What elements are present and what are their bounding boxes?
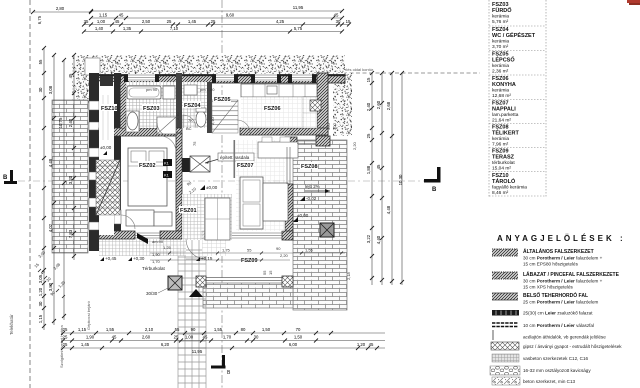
kitchen sink bbox=[267, 86, 277, 94]
svg-text:5,75: 5,75 bbox=[294, 26, 303, 31]
svg-text:kerámia: kerámia bbox=[492, 136, 509, 142]
tick marks top bbox=[31, 9, 351, 34]
wc bowl FSZ04 bbox=[196, 111, 206, 127]
svg-text:beton szerkezet, min C13: beton szerkezet, min C13 bbox=[523, 379, 576, 384]
svg-text:55: 55 bbox=[247, 248, 252, 253]
svg-text:kerámia: kerámia bbox=[492, 63, 509, 69]
swatch 1 general wall bbox=[492, 248, 603, 267]
svg-text:NAPPALI: NAPPALI bbox=[492, 107, 516, 113]
svg-text:15: 15 bbox=[346, 19, 351, 24]
right insulation speckle band bbox=[333, 73, 352, 136]
svg-text:vasbeton szerkezetek C12, C16: vasbeton szerkezetek C12, C16 bbox=[523, 356, 589, 361]
svg-text:3,08: 3,08 bbox=[48, 85, 53, 94]
svg-text:360: 360 bbox=[326, 123, 331, 130]
south wall hall segment bbox=[202, 231, 226, 239]
svg-text:11,95: 11,95 bbox=[293, 5, 304, 10]
svg-text:25: 25 bbox=[63, 335, 68, 340]
section marker B right bbox=[424, 167, 441, 193]
swatch 3 internal load bearing bbox=[492, 291, 599, 305]
window opening in top wall (stairs) bbox=[216, 74, 234, 81]
svg-text:45: 45 bbox=[376, 164, 381, 169]
kitchen floor tiles bbox=[241, 97, 317, 128]
bedroom right wall bbox=[176, 133, 182, 231]
svg-text:7,10: 7,10 bbox=[170, 26, 179, 31]
svg-text:FSZ02: FSZ02 bbox=[139, 163, 156, 169]
section line B-B horizontal dashed bbox=[18, 180, 425, 182]
south glazing lines bbox=[135, 233, 285, 238]
legend row FSZ04 bbox=[492, 27, 536, 50]
svg-text:25(30) cm Leier zsaluzókő fala: 25(30) cm Leier zsaluzókő falazat bbox=[523, 311, 593, 316]
FSZ05 stair treads bbox=[212, 100, 238, 133]
terrace edge double line bbox=[206, 278, 282, 281]
svg-text:1,50: 1,50 bbox=[262, 327, 271, 332]
shaft box with X bbox=[190, 156, 210, 172]
svg-text:4,25: 4,25 bbox=[276, 19, 285, 24]
svg-text:LÁBAZAT / PINCEFAL FALSZERKEZE: LÁBAZAT / PINCEFAL FALSZERKEZETE bbox=[523, 271, 620, 278]
svg-text:1,40: 1,40 bbox=[95, 26, 104, 31]
svg-text:Térburkolat: Térburkolat bbox=[142, 266, 166, 271]
svg-text:FSZ07: FSZ07 bbox=[237, 163, 254, 169]
telikert glazing bbox=[287, 147, 290, 184]
bottom-left dims cluster bbox=[33, 249, 67, 297]
bathroom left wall hatch strip bbox=[121, 82, 127, 128]
svg-text:B: B bbox=[432, 187, 437, 193]
kitchen flue hatched square bbox=[310, 100, 321, 111]
insulation contour dashed line top right bbox=[330, 72, 480, 74]
hall cabinet bbox=[205, 198, 230, 240]
terrace brick column FSZ09 bbox=[293, 140, 347, 310]
FSZ10 floor white with shelf lines bbox=[99, 82, 114, 235]
svg-text:15: 15 bbox=[366, 77, 371, 82]
row 6 lintels bbox=[493, 330, 606, 340]
wall FSZ04|FSZ05 bbox=[207, 82, 212, 133]
svg-text:15 cm EPS80 hőszigetelés: 15 cm EPS80 hőszigetelés bbox=[523, 262, 579, 267]
telikert top wall piece right bbox=[316, 136, 330, 146]
swatch 9 gravel bbox=[490, 366, 591, 375]
svg-text:1,75: 1,75 bbox=[222, 248, 231, 253]
svg-text:2,10: 2,10 bbox=[210, 116, 215, 125]
svg-text:25: 25 bbox=[211, 19, 216, 24]
svg-text:3,22: 3,22 bbox=[366, 234, 371, 243]
pillar 30/30 with X bbox=[168, 276, 182, 290]
svg-text:4,40: 4,40 bbox=[376, 235, 381, 244]
FSZ10 right wall door gap bbox=[114, 210, 121, 224]
pillar small hatched B bbox=[282, 276, 293, 287]
svg-text:70: 70 bbox=[296, 327, 301, 332]
svg-text:1,15: 1,15 bbox=[78, 327, 87, 332]
svg-text:1,90: 1,90 bbox=[152, 252, 161, 257]
svg-text:1,88: 1,88 bbox=[366, 165, 371, 174]
hall floor tiles bbox=[182, 194, 232, 240]
svg-text:1,15: 1,15 bbox=[38, 314, 43, 323]
label FSZ02 bbox=[138, 161, 156, 169]
bathtub FSZ03 bbox=[127, 86, 161, 99]
svg-text:Gépkocsi bejáró: Gépkocsi bejáró bbox=[86, 300, 91, 330]
svg-text:2,36 m²: 2,36 m² bbox=[492, 69, 509, 75]
svg-text:1,55: 1,55 bbox=[214, 327, 223, 332]
svg-text:2,40: 2,40 bbox=[68, 118, 73, 127]
label box epitett bbox=[218, 153, 254, 161]
svg-text:3,20: 3,20 bbox=[68, 175, 73, 184]
svg-text:FSZ09: FSZ09 bbox=[241, 258, 258, 264]
svg-text:1,00: 1,00 bbox=[185, 335, 194, 340]
svg-text:gipsz / ásványi gyapot - extru: gipsz / ásványi gyapot - extrudált hőszi… bbox=[523, 344, 622, 349]
svg-text:-0,02: -0,02 bbox=[306, 196, 317, 201]
legend row FSZ06 bbox=[492, 76, 516, 99]
svg-text:12,68 m²: 12,68 m² bbox=[492, 93, 511, 99]
living room parquet faint bbox=[236, 140, 285, 231]
terrace brick strip bottom bbox=[203, 283, 293, 308]
entrance arrow black triangle bbox=[189, 289, 203, 297]
level flag -0,02 bbox=[300, 196, 305, 201]
svg-text:FSZ03: FSZ03 bbox=[143, 106, 160, 112]
tiny interior dims rotated bbox=[175, 111, 357, 280]
right exterior wall (kitchen) bbox=[317, 73, 328, 135]
legend row FSZ10 bbox=[492, 173, 527, 196]
svg-text:7K: 7K bbox=[188, 118, 193, 123]
level row +0,15 bbox=[196, 257, 200, 261]
top insulation speckle band bbox=[85, 55, 345, 75]
legend row FSZ08 bbox=[492, 125, 520, 148]
svg-text:30 cm Porotherm / Leier falazó: 30 cm Porotherm / Leier falazóelem + bbox=[523, 256, 603, 261]
wardrobe FSZ02 bbox=[126, 210, 154, 226]
svg-text:15,04 m²: 15,04 m² bbox=[492, 166, 511, 172]
svg-text:55: 55 bbox=[175, 327, 180, 332]
svg-text:25: 25 bbox=[366, 133, 371, 138]
telikert top wall piece left bbox=[285, 137, 297, 147]
garden path ladder below plan bbox=[178, 240, 206, 388]
svg-text:1,70: 1,70 bbox=[223, 335, 232, 340]
svg-text:2,10: 2,10 bbox=[175, 111, 180, 120]
svg-text:±0,00: ±0,00 bbox=[100, 145, 112, 150]
shower corner FSZ03 bbox=[157, 117, 176, 134]
svg-text:1,55: 1,55 bbox=[305, 248, 314, 253]
svg-text:6,20: 6,20 bbox=[161, 342, 170, 347]
dining table bbox=[258, 142, 298, 158]
svg-text:FSZ04: FSZ04 bbox=[184, 103, 201, 109]
label FSZ09 bbox=[240, 256, 258, 264]
level flag telikert bbox=[293, 217, 298, 222]
svg-text:+0,30: +0,30 bbox=[133, 256, 145, 261]
FSZ04 wc floor bbox=[182, 82, 207, 128]
svg-text:2,60: 2,60 bbox=[142, 335, 151, 340]
svg-text:30/30: 30/30 bbox=[146, 291, 158, 296]
legend row FSZ05 bbox=[492, 52, 515, 75]
svg-text:kerámia: kerámia bbox=[492, 39, 509, 45]
svg-text:30: 30 bbox=[38, 87, 43, 92]
telikert left wall bbox=[285, 184, 293, 240]
label FSZ01 bbox=[179, 206, 197, 214]
svg-text:1,20: 1,20 bbox=[38, 287, 43, 296]
svg-text:1,00: 1,00 bbox=[97, 19, 106, 24]
red corner mark top right bbox=[627, 0, 640, 3]
swatch 2 plinth wall bbox=[492, 271, 620, 290]
svg-text:Telekhatár: Telekhatár bbox=[9, 314, 14, 335]
svg-text:+0,45: +0,45 bbox=[105, 256, 117, 261]
svg-text:90: 90 bbox=[191, 327, 196, 332]
svg-text:10,30: 10,30 bbox=[398, 174, 403, 185]
washbasin oval FSZ03 bbox=[127, 112, 138, 130]
level row +0,30 bbox=[128, 257, 132, 261]
svg-text:BELSŐ TEHERHORDÓ FAL: BELSŐ TEHERHORDÓ FAL bbox=[523, 291, 588, 299]
dim line 2,80 bbox=[33, 11, 91, 13]
svg-text:K1: K1 bbox=[164, 173, 170, 178]
svg-text:kerámia: kerámia bbox=[492, 14, 509, 20]
svg-text:55: 55 bbox=[262, 270, 267, 275]
level row +0,45 bbox=[100, 257, 104, 261]
svg-text:45: 45 bbox=[115, 19, 120, 24]
svg-text:±0,00: ±0,00 bbox=[206, 185, 218, 190]
svg-text:6,00: 6,00 bbox=[289, 342, 298, 347]
svg-text:45: 45 bbox=[203, 335, 208, 340]
svg-text:kerámia: kerámia bbox=[492, 88, 509, 94]
svg-text:8,46 m²: 8,46 m² bbox=[492, 190, 509, 196]
svg-text:16-32 mm osztályozott kavicság: 16-32 mm osztályozott kavicságy bbox=[523, 368, 591, 373]
swatch 7 insulation crosshatch bbox=[491, 342, 622, 350]
left wall window gaps bbox=[89, 101, 99, 110]
svg-text:TÉLIKERT: TÉLIKERT bbox=[492, 129, 520, 137]
window opening 2 in top wall (kitchen right) bbox=[292, 74, 312, 81]
svg-text:TERASZ: TERASZ bbox=[492, 155, 515, 161]
svg-text:25: 25 bbox=[63, 327, 68, 332]
svg-text:45: 45 bbox=[369, 342, 374, 347]
window opening in top wall (bathroom) bbox=[128, 74, 155, 81]
left basement brick wall bbox=[52, 100, 88, 253]
FSZ03 bathroom floor bbox=[121, 82, 176, 128]
door swing arcs bbox=[121, 115, 250, 259]
svg-text:FSZ05: FSZ05 bbox=[214, 97, 231, 103]
interior dim chain lines bbox=[150, 253, 345, 260]
svg-text:1,55: 1,55 bbox=[106, 327, 115, 332]
property line (telekhatar) dashed vertical bbox=[29, 0, 31, 388]
svg-text:2,20: 2,20 bbox=[352, 141, 357, 150]
svg-text:300: 300 bbox=[332, 123, 337, 130]
svg-text:21,64 m²: 21,64 m² bbox=[492, 118, 511, 124]
svg-text:45: 45 bbox=[112, 335, 117, 340]
label FSZ06 bbox=[263, 104, 281, 112]
pillar small hatched A bbox=[196, 276, 206, 287]
south wall bedroom segment bbox=[99, 231, 135, 239]
FSZ10 right wall dark bbox=[114, 73, 121, 235]
svg-text:4,48: 4,48 bbox=[386, 205, 391, 214]
svg-text:30: 30 bbox=[254, 335, 259, 340]
kitchen counter band bbox=[241, 84, 317, 97]
label FSZ03 bbox=[142, 104, 160, 112]
svg-text:fagyálló kerámia: fagyálló kerámia bbox=[492, 185, 527, 191]
left exterior wall dark bbox=[89, 73, 99, 251]
svg-text:acélajtón áthidalók, vb gerend: acélajtón áthidalók, vb gerendák jelölés… bbox=[523, 335, 606, 340]
svg-text:25: 25 bbox=[174, 335, 179, 340]
legend row FSZ09 bbox=[492, 149, 515, 172]
svg-text:2,68: 2,68 bbox=[386, 101, 391, 110]
svg-text:FÜRDŐ: FÜRDŐ bbox=[492, 7, 512, 14]
label FSZ07 bbox=[236, 161, 254, 169]
section marker B left bbox=[3, 170, 17, 184]
wc sink FSZ04 bbox=[184, 85, 197, 95]
sofa FSZ07 bbox=[240, 177, 263, 229]
svg-text:1,90: 1,90 bbox=[86, 335, 95, 340]
axis centerline vertical bbox=[221, 0, 223, 388]
legend row FSZ07 bbox=[492, 101, 519, 124]
svg-text:30 cm Porotherm / Leier falazó: 30 cm Porotherm / Leier falazóelem + bbox=[523, 279, 603, 284]
svg-text:30: 30 bbox=[38, 301, 43, 306]
top wall black jambs bbox=[124, 75, 316, 84]
svg-text:1,20: 1,20 bbox=[357, 342, 366, 347]
svg-text:45: 45 bbox=[68, 73, 73, 78]
svg-text:FSZ08: FSZ08 bbox=[301, 164, 318, 170]
svg-text:7,83: 7,83 bbox=[68, 229, 73, 238]
chimney black K1 bbox=[163, 159, 172, 166]
pavement tiles in front of house bbox=[99, 239, 186, 256]
svg-text:2,20: 2,20 bbox=[280, 253, 289, 258]
building corner white notch top-left bbox=[85, 58, 100, 75]
svg-text:ANYAGJELÖLÉSEK :: ANYAGJELÖLÉSEK : bbox=[497, 234, 626, 243]
svg-text:pm 90: pm 90 bbox=[146, 87, 158, 92]
legend row FSZ03 bbox=[492, 2, 512, 25]
svg-text:25: 25 bbox=[167, 19, 172, 24]
top dim labels bbox=[56, 5, 351, 31]
dining chairs small rects bbox=[262, 137, 272, 142]
dim line row3 bbox=[84, 24, 349, 26]
wall under bathroom (FSZ02 top) bbox=[99, 128, 182, 136]
svg-text:2,60: 2,60 bbox=[376, 100, 381, 109]
svg-text:10 cm Porotherm / Leier válasz: 10 cm Porotherm / Leier válaszfal bbox=[523, 323, 594, 328]
svg-text:2,50: 2,50 bbox=[142, 19, 151, 24]
svg-text:1,45: 1,45 bbox=[81, 342, 90, 347]
svg-text:1,35: 1,35 bbox=[123, 26, 132, 31]
exterior stair left with hatch bbox=[96, 160, 120, 215]
svg-text:25 cm Porotherm / Leier falazó: 25 cm Porotherm / Leier falazóelem bbox=[523, 300, 599, 305]
svg-text:2,80: 2,80 bbox=[56, 6, 65, 11]
svg-text:pm 1,80: pm 1,80 bbox=[200, 87, 215, 92]
swatch 4 dark zsaluzoko bbox=[492, 310, 593, 316]
kitchen counter divisions bbox=[253, 84, 305, 97]
svg-text:FSZ06: FSZ06 bbox=[264, 106, 281, 112]
svg-text:80: 80 bbox=[241, 327, 246, 332]
svg-text:1,70: 1,70 bbox=[152, 259, 161, 264]
svg-text:2,40: 2,40 bbox=[366, 102, 371, 111]
svg-text:lejt. 2%: lejt. 2% bbox=[305, 184, 320, 189]
chimney solid near hall bbox=[182, 158, 190, 172]
kitchen right counter bbox=[303, 97, 317, 128]
svg-text:45: 45 bbox=[334, 13, 339, 18]
arrow into shaft bbox=[205, 159, 219, 163]
swatch 10 concrete bbox=[492, 377, 576, 385]
wall FSZ03|FSZ04 bbox=[176, 73, 182, 133]
svg-text:11,95: 11,95 bbox=[192, 349, 203, 354]
washbasin counter FSZ03 bbox=[126, 111, 139, 132]
svg-text:LÉPCSŐ: LÉPCSŐ bbox=[492, 56, 515, 64]
hall-living wall piece bbox=[234, 140, 236, 178]
svg-text:FSZ10: FSZ10 bbox=[101, 106, 118, 112]
svg-text:1,50: 1,50 bbox=[294, 335, 303, 340]
level 0,00 in FSZ10 bbox=[103, 151, 107, 155]
svg-text:9,60: 9,60 bbox=[226, 13, 235, 18]
svg-text:am:90: am:90 bbox=[152, 239, 164, 244]
svg-text:ÁLTALÁNOS FALSZERKEZET: ÁLTALÁNOS FALSZERKEZET bbox=[523, 248, 594, 255]
svg-text:25: 25 bbox=[63, 342, 68, 347]
svg-text:90: 90 bbox=[276, 246, 281, 251]
svg-text:30: 30 bbox=[336, 19, 341, 24]
svg-text:2,10: 2,10 bbox=[145, 327, 154, 332]
svg-text:FSZ01: FSZ01 bbox=[180, 208, 197, 214]
svg-text:7,96 m²: 7,96 m² bbox=[492, 142, 509, 148]
svg-text:4,02: 4,02 bbox=[48, 223, 53, 232]
svg-text:5,76 m²: 5,76 m² bbox=[492, 19, 509, 25]
svg-text:TÁROLÓ: TÁROLÓ bbox=[492, 177, 516, 185]
washing machine bbox=[163, 86, 175, 99]
label FSZ05 bbox=[213, 95, 231, 103]
svg-text:75: 75 bbox=[192, 141, 197, 146]
svg-text:45: 45 bbox=[119, 13, 124, 18]
table FSZ07 bbox=[263, 183, 288, 221]
label FSZ08 bbox=[300, 162, 318, 170]
dim line row4 bbox=[84, 31, 342, 33]
svg-text:1,15: 1,15 bbox=[99, 13, 108, 18]
svg-text:55: 55 bbox=[38, 59, 43, 64]
svg-text:BC: BC bbox=[186, 126, 192, 131]
left insulation speckle band bbox=[72, 55, 89, 103]
bed FSZ02 bbox=[128, 148, 167, 206]
section marker B bottom bbox=[211, 355, 231, 376]
south wall segment 2 bbox=[160, 231, 182, 239]
swatch 5 partition bbox=[492, 323, 594, 328]
svg-text:KONYHA: KONYHA bbox=[492, 82, 516, 88]
svg-text:±0,00: ±0,00 bbox=[297, 213, 309, 218]
label FSZ04 bbox=[183, 101, 201, 109]
dim line row2 bbox=[91, 17, 342, 19]
svg-text:6,75: 6,75 bbox=[37, 15, 42, 24]
wall kitchen/living separator bbox=[240, 128, 328, 135]
pillar dark on terrace bbox=[320, 223, 334, 237]
swatch 8 reinforced concrete bbox=[492, 354, 589, 362]
svg-text:WC / GÉPÉSZET: WC / GÉPÉSZET bbox=[492, 31, 536, 39]
svg-text:térburkolat: térburkolat bbox=[492, 160, 515, 166]
svg-text:35: 35 bbox=[84, 19, 89, 24]
svg-text:1,25: 1,25 bbox=[163, 245, 172, 250]
svg-text:2,18: 2,18 bbox=[346, 271, 351, 280]
svg-text:B: B bbox=[3, 175, 8, 181]
svg-text:4,48: 4,48 bbox=[48, 158, 53, 167]
dim line total 11,95 bbox=[91, 10, 342, 12]
south-east wall pier bbox=[282, 231, 293, 240]
chimney black K2 bbox=[163, 171, 172, 178]
svg-text:1,45: 1,45 bbox=[188, 19, 197, 24]
svg-text:3,70 m²: 3,70 m² bbox=[492, 44, 509, 50]
svg-text:15 cm XPS hőszigetelés: 15 cm XPS hőszigetelés bbox=[523, 285, 573, 290]
label FSZ10 bbox=[100, 104, 118, 112]
FSZ10 dark door block top bbox=[100, 76, 113, 86]
hall level flag bbox=[200, 185, 205, 190]
top exterior wall bbox=[90, 75, 345, 84]
bedroom door leaf black bbox=[137, 233, 148, 244]
svg-text:K1: K1 bbox=[164, 161, 170, 166]
stairs diagonal bbox=[212, 100, 238, 133]
svg-text:15: 15 bbox=[268, 270, 273, 275]
svg-text:10,75: 10,75 bbox=[58, 117, 63, 128]
svg-text:lam.parketta: lam.parketta bbox=[492, 112, 519, 118]
window opening in top wall (kitchen) bbox=[255, 74, 277, 81]
